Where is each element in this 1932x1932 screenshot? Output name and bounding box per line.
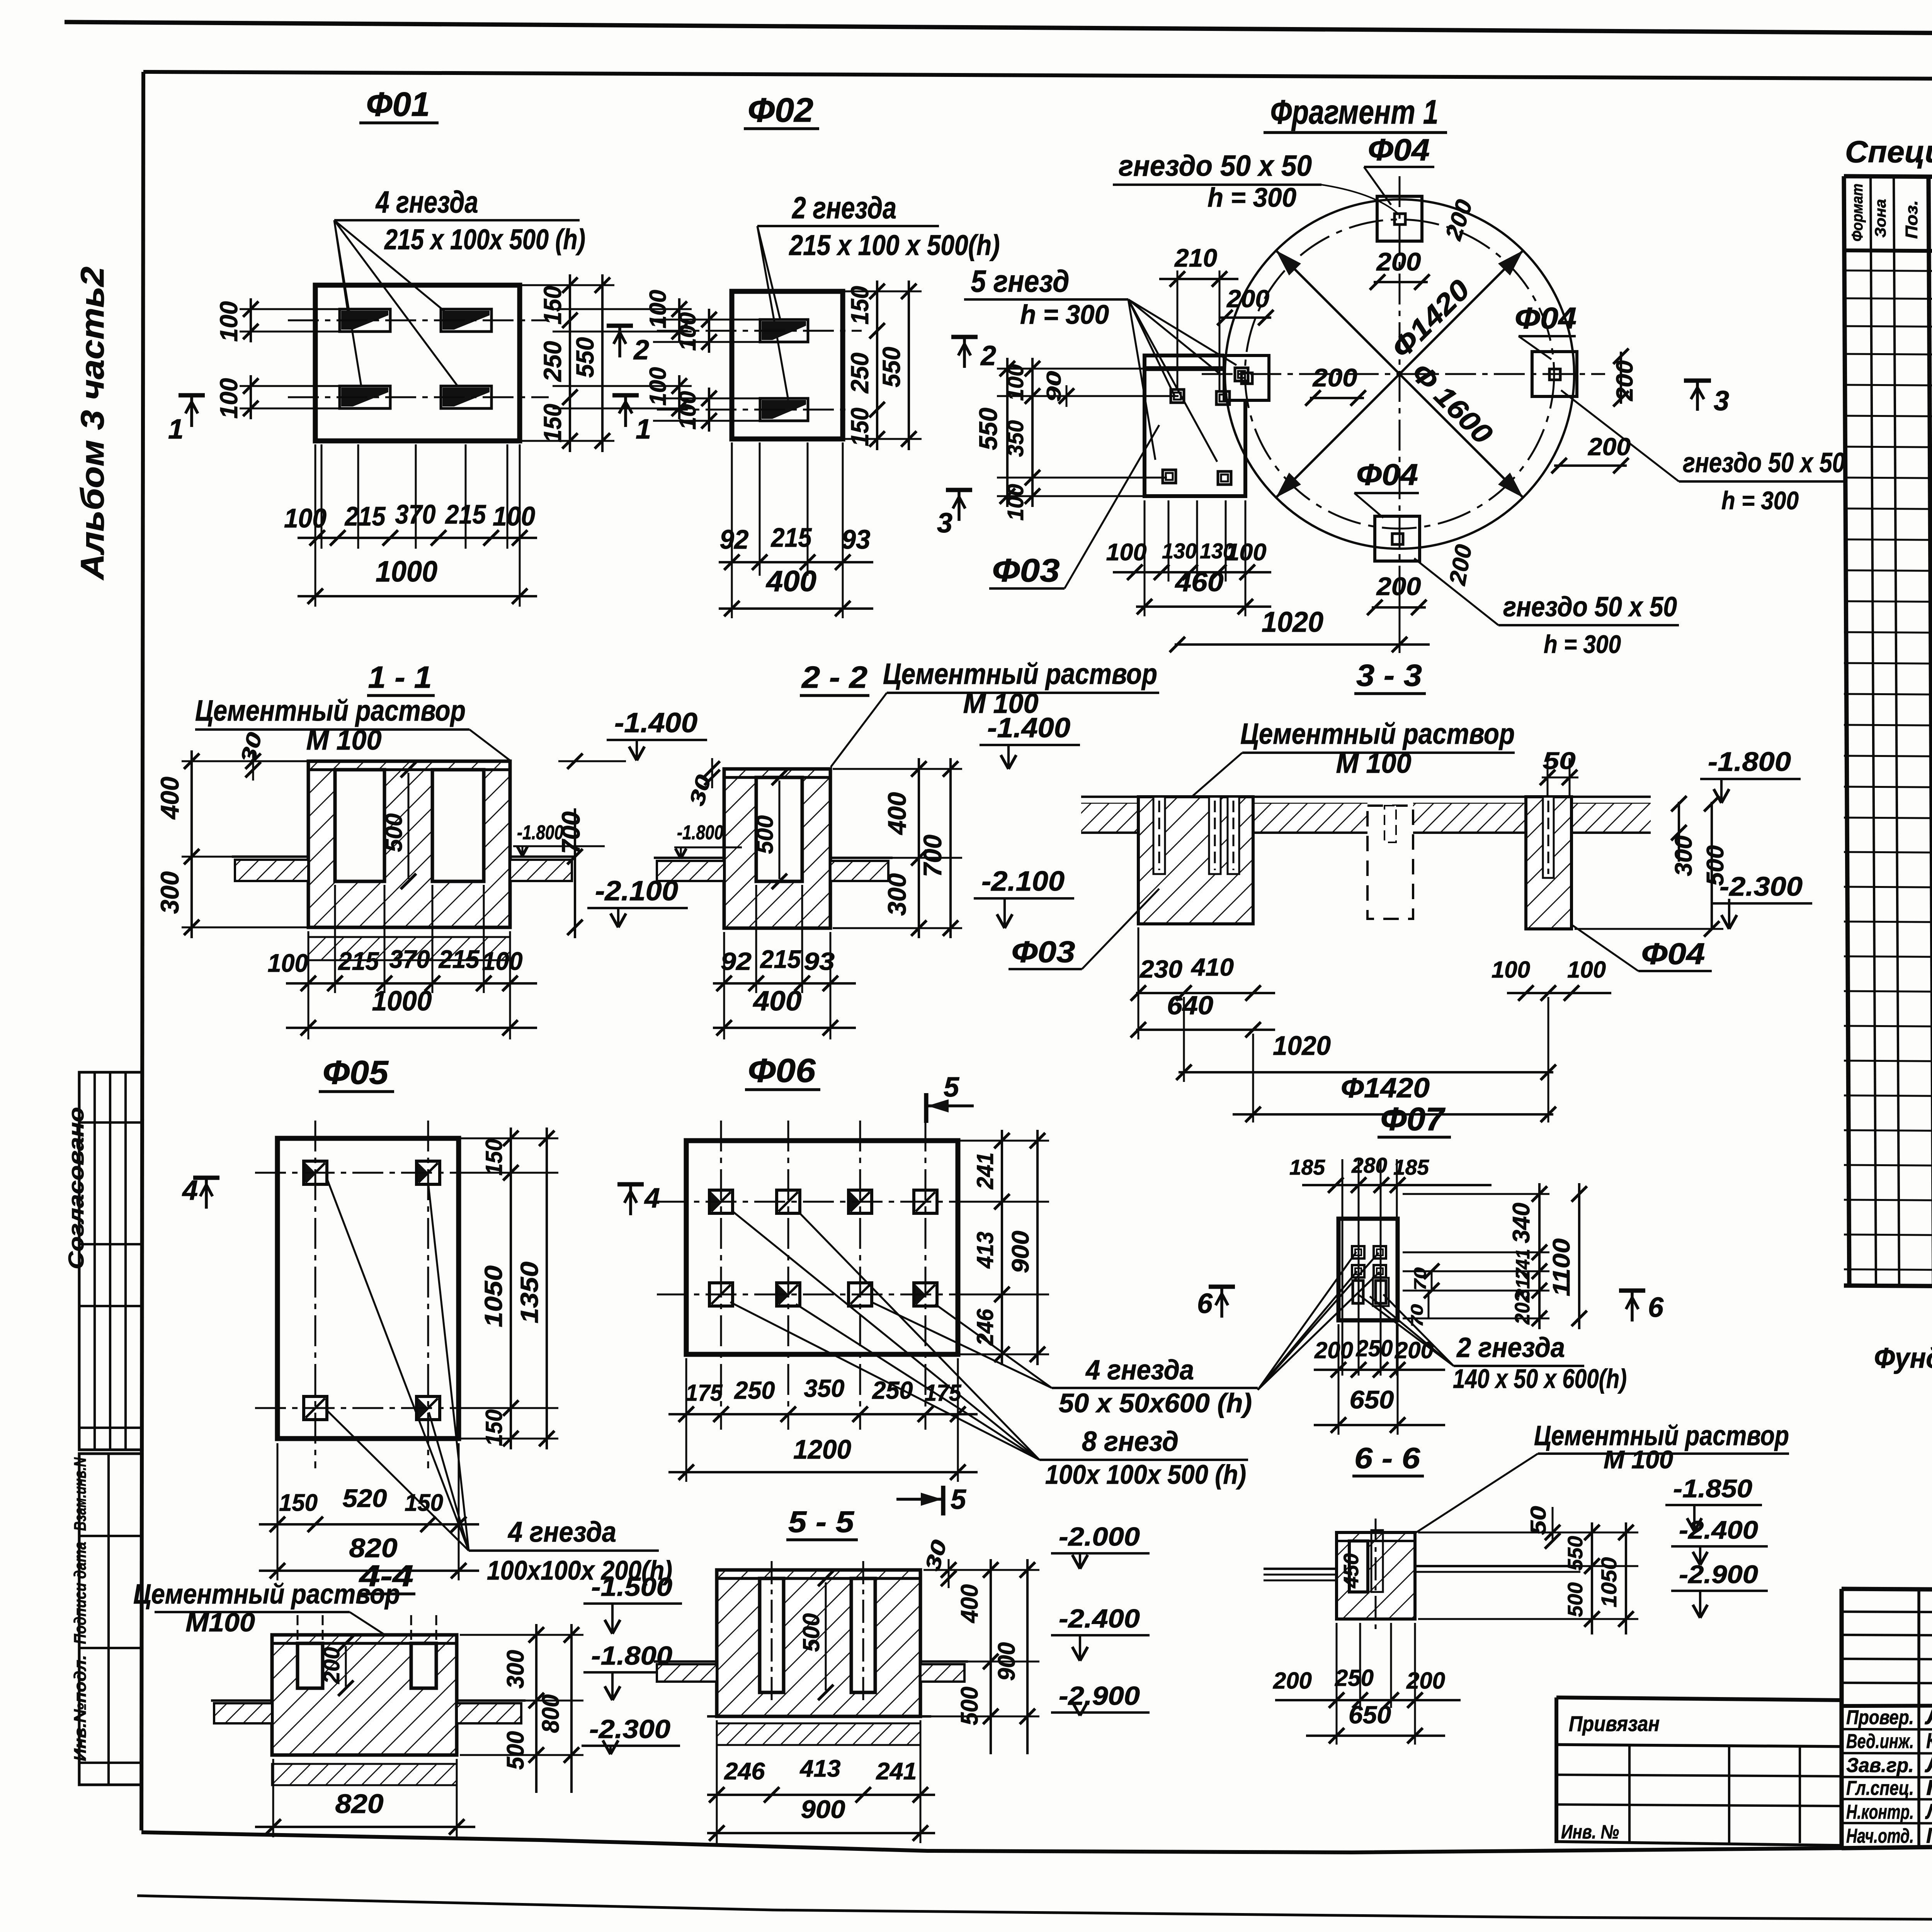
inner frame (143, 72, 1932, 82)
svg-text:92: 92 (720, 524, 749, 554)
svg-text:-1.800: -1.800 (677, 821, 723, 844)
svg-text:250: 250 (846, 353, 874, 394)
svg-text:-2.400: -2.400 (1059, 1604, 1140, 1633)
svg-text:50 х 50х600 (h): 50 х 50х600 (h) (1059, 1388, 1252, 1418)
5-5 right dims (990, 1559, 992, 1754)
svg-text:Ф04: Ф04 (1515, 301, 1577, 335)
svg-text:100: 100 (215, 378, 243, 419)
Ф03 section marks 2,3 left (951, 335, 978, 339)
svg-text:215: 215 (770, 522, 812, 553)
svg-text:150: 150 (539, 286, 566, 325)
svg-text:Лазарева: Лазарева (1925, 1799, 1932, 1823)
Ф05 section marks 4 (193, 1175, 219, 1180)
outer bottom border (137, 1896, 1932, 1923)
svg-text:215: 215 (338, 947, 379, 975)
Ф07 leaders from left (4 гнезда label) (1258, 1252, 1356, 1390)
svg-text:650: 650 (1349, 1701, 1391, 1729)
svg-text:100: 100 (284, 503, 327, 533)
svg-text:5: 5 (944, 1072, 959, 1103)
Ф03 bottom dims (1168, 500, 1170, 582)
svg-text:гнездо 50 х 50: гнездо 50 х 50 (1119, 150, 1312, 182)
Ф07 small slots (1352, 1246, 1364, 1259)
Ф01 leader lines (334, 220, 348, 311)
svg-text:150: 150 (539, 404, 566, 442)
svg-text:8 гнезд: 8 гнезд (1082, 1426, 1179, 1457)
svg-text:2 - 2: 2 - 2 (801, 660, 867, 694)
fragment diagonals with arrows (1276, 250, 1523, 498)
svg-text:4 гнезда: 4 гнезда (375, 185, 478, 219)
4-4 right dims (535, 1624, 537, 1793)
svg-text:100: 100 (482, 947, 523, 975)
Ф05 leader 4 гнезда (327, 1179, 469, 1551)
svg-text:1050: 1050 (1597, 1557, 1621, 1607)
Ф07 bigger slots (1353, 1281, 1363, 1303)
svg-text:Ф02: Ф02 (748, 91, 813, 129)
svg-text:3 - 3: 3 - 3 (1356, 658, 1422, 692)
svg-text:1200: 1200 (793, 1434, 851, 1464)
svg-text:250: 250 (1356, 1335, 1393, 1361)
svg-text:200: 200 (1395, 1337, 1434, 1363)
Ф07 section marks 6 (1209, 1284, 1235, 1289)
svg-text:100: 100 (1492, 957, 1530, 983)
svg-text:Ф01: Ф01 (366, 85, 430, 123)
svg-text:Согласовано: Согласовано (64, 1107, 88, 1269)
Ф06 section mark 5 top (924, 1093, 928, 1123)
Ф01 section mark 1 right (612, 393, 639, 397)
4-4 body (272, 1635, 457, 1755)
spec table frame (1844, 176, 1932, 181)
svg-text:500: 500 (1564, 1582, 1587, 1617)
Ф06 plan rect (686, 1141, 958, 1354)
svg-text:100: 100 (215, 301, 243, 342)
section mark 3 right (1684, 378, 1711, 383)
svg-text:400: 400 (765, 565, 816, 598)
spec table rows (1844, 270, 1932, 275)
5-5 slot centerlines (771, 1561, 773, 1700)
svg-text:200: 200 (1376, 247, 1421, 276)
Ф03 leader fan (1128, 299, 1175, 396)
svg-text:Цементный раствор: Цементный раствор (883, 658, 1157, 690)
5-5 body (717, 1570, 920, 1716)
svg-text:820: 820 (335, 1789, 384, 1819)
svg-text:200: 200 (1312, 363, 1357, 392)
svg-text:413: 413 (799, 1755, 840, 1782)
3-3 left foundation Ф03 (1138, 797, 1253, 924)
6-6 centerline (1375, 1519, 1377, 1634)
svg-text:4 гнезда: 4 гнезда (507, 1516, 616, 1548)
svg-text:Фрагмент 1: Фрагмент 1 (1270, 93, 1439, 131)
svg-text:640: 640 (1167, 991, 1213, 1020)
svg-text:100: 100 (675, 312, 701, 351)
svg-text:гнездо 50 х 50: гнездо 50 х 50 (1503, 592, 1677, 622)
svg-text:200: 200 (1273, 1668, 1312, 1694)
svg-text:185: 185 (1393, 1155, 1429, 1179)
svg-text:-1.800: -1.800 (1708, 747, 1791, 777)
1-1 body (308, 761, 510, 927)
svg-text:2: 2 (633, 335, 649, 366)
svg-text:200: 200 (1376, 572, 1421, 600)
svg-text:500: 500 (956, 1687, 983, 1725)
svg-text:Фундаменты бетонируются пос: Фундаменты бетонируются после получения … (1874, 1342, 1932, 1374)
svg-text:Взам.инв.N: Взам.инв.N (71, 1457, 90, 1531)
3-3 right foundation Ф04 (1526, 797, 1571, 929)
svg-text:2 гнезда: 2 гнезда (1456, 1332, 1565, 1363)
svg-text:210: 210 (1174, 243, 1217, 272)
svg-text:Ф03: Ф03 (1012, 935, 1075, 969)
svg-text:Цементный раствор: Цементный раствор (133, 1579, 400, 1610)
svg-text:Гл.спец.: Гл.спец. (1846, 1777, 1914, 1799)
svg-text:Капустин: Капустин (1926, 1728, 1932, 1753)
svg-text:Вед.инж.: Вед.инж. (1846, 1730, 1914, 1753)
svg-text:гнездо 50 х 50: гнездо 50 х 50 (1683, 447, 1845, 478)
title block frame (1842, 1589, 1932, 1594)
svg-text:400: 400 (883, 792, 911, 835)
svg-text:3: 3 (1714, 386, 1729, 417)
title block upper rows (1842, 1612, 1932, 1613)
Ф07 right dims (1538, 1183, 1541, 1329)
svg-text:140 х 50 х 600(h): 140 х 50 х 600(h) (1453, 1364, 1627, 1394)
svg-text:-2.000: -2.000 (1059, 1522, 1140, 1551)
Ф02 left dims (708, 309, 710, 353)
Ф01 far right dims 100 (678, 298, 680, 342)
1-1 ground slabs (235, 860, 308, 881)
fragment centerlines (1399, 176, 1401, 576)
svg-text:-2.900: -2.900 (1679, 1560, 1758, 1588)
5-5 break + base (707, 1715, 931, 1718)
svg-text:Ф07: Ф07 (1381, 1101, 1446, 1137)
svg-text:350: 350 (804, 1374, 845, 1402)
svg-text:650: 650 (1350, 1385, 1394, 1414)
3-3 center dashed future foundation (1367, 806, 1413, 919)
4-4 ground slabs (214, 1703, 272, 1723)
svg-text:1100: 1100 (1548, 1238, 1575, 1296)
svg-text:200: 200 (1588, 433, 1631, 461)
svg-text:550: 550 (974, 408, 1002, 450)
svg-text:215 х 100 х 500(h): 215 х 100 х 500(h) (789, 229, 1000, 261)
svg-text:460: 460 (1174, 567, 1223, 597)
svg-text:Ф06: Ф06 (748, 1052, 816, 1089)
Ф02 centerlines (657, 330, 862, 332)
svg-text:350: 350 (1003, 420, 1028, 457)
Ф06 section mark 5 bottom (941, 1486, 945, 1515)
Ф01 centerlines (288, 320, 549, 321)
svg-text:Ф04: Ф04 (1368, 133, 1430, 167)
6-6 body (1337, 1532, 1415, 1619)
Ф04 squares N/E/S/W (1377, 196, 1422, 241)
svg-text:150: 150 (846, 408, 874, 446)
svg-text:6: 6 (1648, 1292, 1664, 1323)
5-5 ground slab right (920, 1664, 964, 1682)
svg-text:90: 90 (1043, 371, 1065, 402)
svg-text:-2.400: -2.400 (1679, 1515, 1758, 1544)
Ф02 slots (760, 320, 808, 342)
Ф01 section mark 1 left (179, 393, 205, 397)
svg-text:Ф04: Ф04 (1356, 457, 1418, 492)
svg-text:-2.300: -2.300 (589, 1714, 670, 1744)
1-1 left dims (190, 750, 193, 938)
svg-text:Ф05: Ф05 (323, 1054, 389, 1091)
svg-text:Поз.: Поз. (1902, 200, 1921, 239)
svg-text:250: 250 (734, 1376, 775, 1404)
svg-text:4: 4 (182, 1175, 198, 1206)
2-2 ground slabs (657, 861, 724, 881)
svg-text:-1.400: -1.400 (987, 713, 1070, 743)
svg-text:-1.500: -1.500 (591, 1572, 672, 1602)
Ф02 bottom dims (759, 442, 761, 576)
svg-text:-2.100: -2.100 (981, 866, 1065, 897)
Ф05 squares (304, 1161, 327, 1184)
svg-text:202: 202 (1511, 1292, 1534, 1325)
svg-text:Привязан: Привязан (1569, 1711, 1660, 1736)
svg-text:520: 520 (343, 1484, 387, 1512)
title block signature rows (1842, 1729, 1932, 1730)
svg-text:200: 200 (1314, 1337, 1353, 1363)
svg-text:1020: 1020 (1273, 1031, 1331, 1061)
Ф05 centerlines (255, 1172, 506, 1174)
svg-text:1050: 1050 (480, 1265, 507, 1327)
Ф02 leader lines (757, 226, 781, 321)
svg-text:h = 300: h = 300 (1721, 486, 1799, 515)
svg-text:Спецификация фундаментов под: Спецификация фундаментов под оборудовани… (1845, 134, 1932, 169)
svg-text:215 х 100х 500 (h): 215 х 100х 500 (h) (384, 223, 585, 255)
svg-text:500: 500 (798, 1613, 824, 1652)
svg-text:100: 100 (1003, 484, 1028, 521)
svg-text:Ф03: Ф03 (992, 552, 1060, 588)
svg-text:450: 450 (1340, 1553, 1363, 1588)
svg-text:-1.400: -1.400 (614, 707, 697, 738)
svg-text:70: 70 (1408, 1304, 1427, 1327)
svg-text:500: 500 (752, 815, 778, 854)
Ф05 right dims (510, 1128, 512, 1449)
Ф03 dims left (1006, 358, 1009, 507)
svg-text:300: 300 (155, 871, 184, 914)
Ф06 squares 2 rows x 4 (709, 1190, 733, 1213)
svg-text:2: 2 (980, 340, 996, 371)
svg-text:1 - 1: 1 - 1 (368, 660, 432, 694)
svg-text:215: 215 (445, 499, 486, 529)
svg-text:175: 175 (686, 1380, 723, 1406)
svg-text:150: 150 (481, 1410, 507, 1446)
Ф01 section mark 2 top right (607, 323, 633, 328)
svg-text:1000: 1000 (372, 986, 432, 1017)
svg-text:Провер.: Провер. (1846, 1706, 1914, 1729)
svg-text:Зона: Зона (1872, 199, 1889, 238)
title block verticals (1917, 1590, 1920, 1847)
svg-text:М 100: М 100 (1604, 1445, 1673, 1474)
svg-text:Подписи дата: Подписи дата (71, 1542, 90, 1644)
Ф01 slots (340, 309, 390, 332)
svg-text:550: 550 (571, 337, 599, 378)
svg-text:1: 1 (636, 414, 651, 445)
svg-text:92: 92 (721, 947, 752, 975)
svg-text:100: 100 (675, 391, 701, 430)
svg-text:215: 215 (344, 501, 386, 531)
svg-text:413: 413 (972, 1232, 998, 1269)
2-2 right dims (918, 758, 920, 938)
svg-text:1020: 1020 (1262, 606, 1323, 638)
svg-text:900: 900 (801, 1795, 845, 1823)
svg-text:4: 4 (644, 1183, 660, 1214)
svg-text:250: 250 (872, 1376, 913, 1404)
Ф05 plan rect (277, 1138, 459, 1439)
Ф01 bottom dims (321, 444, 323, 549)
svg-text:-1.850: -1.850 (1673, 1474, 1752, 1503)
svg-text:400: 400 (155, 777, 184, 820)
svg-text:150: 150 (279, 1490, 318, 1516)
svg-text:Цементный раствор: Цементный раствор (1240, 718, 1515, 750)
svg-text:130: 130 (1162, 539, 1197, 563)
svg-text:370: 370 (389, 945, 430, 973)
svg-text:700: 700 (918, 835, 947, 877)
svg-text:230: 230 (1139, 955, 1182, 983)
svg-text:-2.300: -2.300 (1719, 871, 1803, 901)
svg-text:700: 700 (556, 811, 585, 854)
svg-text:400: 400 (752, 986, 801, 1017)
svg-text:500: 500 (381, 813, 407, 852)
svg-text:300: 300 (1670, 836, 1697, 876)
svg-text:900: 900 (1007, 1231, 1034, 1273)
svg-text:Инв. №: Инв. № (1561, 1821, 1619, 1843)
svg-text:241: 241 (972, 1153, 998, 1190)
svg-text:h = 300: h = 300 (1544, 630, 1621, 658)
Ф07 plan rect (1338, 1219, 1398, 1320)
svg-text:250: 250 (539, 341, 566, 382)
svg-text:Цементный раствор: Цементный раствор (195, 694, 466, 727)
svg-text:100: 100 (1567, 957, 1606, 983)
svg-text:300: 300 (502, 1650, 529, 1689)
svg-text:100: 100 (493, 501, 535, 531)
Ф01 left dims (250, 298, 252, 342)
svg-text:215: 215 (438, 945, 480, 973)
fragment circles (1245, 219, 1554, 529)
1-1 base strip (308, 937, 510, 960)
svg-text:5: 5 (951, 1484, 966, 1515)
svg-text:246: 246 (724, 1758, 765, 1785)
svg-text:200: 200 (1226, 285, 1269, 313)
5-5 ground slab left (657, 1664, 717, 1682)
svg-text:5 гнезд: 5 гнезд (971, 264, 1070, 298)
svg-text:410: 410 (1190, 953, 1234, 981)
svg-text:Ф1420: Ф1420 (1341, 1073, 1430, 1104)
svg-text:h = 300: h = 300 (1207, 182, 1296, 213)
svg-text:6 - 6: 6 - 6 (1354, 1442, 1420, 1475)
svg-text:1000: 1000 (376, 555, 437, 588)
svg-text:100х 100х 500 (h): 100х 100х 500 (h) (1045, 1459, 1246, 1490)
svg-text:1: 1 (168, 414, 184, 445)
svg-text:4 гнезда: 4 гнезда (1085, 1355, 1194, 1386)
svg-text:Н.контр.: Н.контр. (1846, 1801, 1914, 1823)
Ф01 right dims (569, 274, 571, 452)
svg-text:93: 93 (842, 524, 871, 554)
Ф07 extension lines right (1403, 1193, 1549, 1195)
svg-text:Ф04: Ф04 (1641, 937, 1705, 971)
svg-text:241: 241 (876, 1758, 917, 1785)
svg-text:280: 280 (1351, 1153, 1387, 1177)
svg-text:200: 200 (1406, 1668, 1445, 1694)
svg-text:400: 400 (956, 1584, 983, 1624)
svg-text:-2.900: -2.900 (1059, 1681, 1140, 1711)
svg-text:100: 100 (268, 949, 308, 977)
svg-text:Формат: Формат (1849, 184, 1866, 241)
3-3 right dims (1678, 802, 1680, 862)
svg-text:150: 150 (481, 1139, 507, 1176)
outer top border (65, 22, 1932, 37)
svg-text:Пронин: Пронин (1926, 1775, 1932, 1799)
svg-text:Альбом 3 часть2: Альбом 3 часть2 (74, 267, 111, 580)
Ф06 centerlines (657, 1201, 989, 1203)
Ф03 slots small (1171, 389, 1184, 403)
svg-text:70: 70 (1411, 1267, 1430, 1291)
svg-text:100: 100 (1106, 539, 1147, 566)
2-2 body (724, 769, 830, 928)
svg-text:200: 200 (319, 1647, 344, 1684)
inventory strip table (79, 1454, 142, 1785)
svg-text:250: 250 (1335, 1665, 1374, 1691)
svg-text:500: 500 (502, 1731, 529, 1770)
svg-text:6: 6 (1197, 1288, 1213, 1319)
Ф07 verticals (1342, 1159, 1344, 1376)
svg-text:1350: 1350 (515, 1262, 543, 1323)
3-3 slab (1081, 796, 1651, 798)
spec table header (1844, 250, 1932, 255)
svg-text:5 - 5: 5 - 5 (788, 1505, 855, 1539)
approval strip table (Согласовано) (79, 1072, 142, 1450)
svg-text:Зав.гр.: Зав.гр. (1846, 1754, 1914, 1777)
4-4 base strip (272, 1764, 457, 1785)
svg-text:50: 50 (1526, 1506, 1550, 1535)
svg-text:215: 215 (760, 945, 801, 973)
6-6 ground slabs (1264, 1568, 1337, 1570)
Ф02 right dims (876, 281, 878, 450)
svg-text:Инв.№подл.: Инв.№подл. (71, 1655, 90, 1761)
svg-text:Нач.отд.: Нач.отд. (1846, 1825, 1914, 1847)
Ф03 plan rect (1145, 355, 1245, 496)
svg-text:185: 185 (1289, 1155, 1325, 1179)
svg-text:300: 300 (883, 873, 911, 916)
Ф01 plan rect (315, 285, 520, 441)
svg-text:550: 550 (878, 347, 905, 388)
svg-text:2 гнезда: 2 гнезда (791, 190, 896, 225)
svg-text:3: 3 (937, 508, 952, 539)
svg-text:h = 300: h = 300 (1020, 299, 1109, 330)
svg-text:370: 370 (395, 499, 436, 529)
svg-text:340: 340 (1508, 1203, 1535, 1243)
Ф02 plan rect (732, 291, 843, 439)
Ф06 right dims (1001, 1130, 1003, 1365)
svg-text:Письман: Письман (1926, 1823, 1932, 1847)
Ф03 top dims 210/200 (1177, 270, 1179, 390)
